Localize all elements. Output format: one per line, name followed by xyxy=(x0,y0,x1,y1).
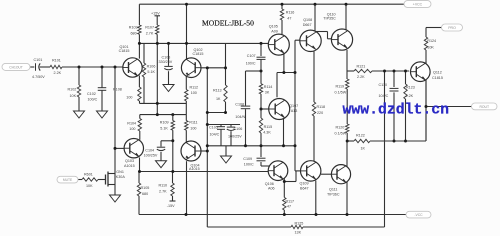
svg-text:C106: C106 xyxy=(234,127,243,131)
svg-text:100: 100 xyxy=(191,91,197,95)
svg-text:+15V: +15V xyxy=(151,12,160,16)
svg-text:ROUT: ROUT xyxy=(479,105,489,109)
svg-text:104/C: 104/C xyxy=(379,94,389,98)
svg-text:104/N: 104/N xyxy=(235,115,245,119)
svg-text:A09: A09 xyxy=(271,29,278,33)
svg-text:Q112: Q112 xyxy=(433,70,442,74)
svg-text:100: 100 xyxy=(190,127,196,131)
svg-text:MODEL:JBL-50: MODEL:JBL-50 xyxy=(202,19,254,28)
svg-text:C104: C104 xyxy=(145,148,154,152)
svg-text:C103: C103 xyxy=(162,55,171,59)
svg-text:C107: C107 xyxy=(247,54,256,58)
svg-text:R114: R114 xyxy=(264,85,273,89)
svg-text:R113: R113 xyxy=(213,89,222,93)
svg-text:PRO: PRO xyxy=(448,26,456,30)
svg-text:Q109: Q109 xyxy=(300,182,309,186)
svg-text:C1815: C1815 xyxy=(119,49,130,53)
svg-text:5.1K: 5.1K xyxy=(147,70,155,74)
svg-text:www.dzdlt.cn: www.dzdlt.cn xyxy=(343,103,450,119)
svg-text:100/25V: 100/25V xyxy=(144,154,158,158)
svg-text:2.7K: 2.7K xyxy=(159,190,167,194)
svg-text:R108: R108 xyxy=(113,88,122,92)
svg-text:-VCC: -VCC xyxy=(414,213,423,217)
svg-text:104/C: 104/C xyxy=(210,133,220,137)
svg-text:0.1/5W: 0.1/5W xyxy=(335,132,347,136)
svg-text:A06: A06 xyxy=(268,187,275,191)
svg-text:R112: R112 xyxy=(190,85,199,89)
svg-text:680: 680 xyxy=(131,31,137,35)
svg-text:2.2K: 2.2K xyxy=(357,75,365,79)
svg-text:D667: D667 xyxy=(303,23,312,27)
svg-text:C101: C101 xyxy=(34,58,43,62)
svg-text:100/C: 100/C xyxy=(246,62,256,66)
svg-text:R123: R123 xyxy=(406,86,415,90)
svg-text:R125: R125 xyxy=(295,222,304,226)
svg-text:100/C: 100/C xyxy=(88,97,98,101)
svg-text:47: 47 xyxy=(287,16,291,20)
svg-text:100: 100 xyxy=(126,95,132,99)
svg-text:R115: R115 xyxy=(264,125,273,129)
svg-text:R105: R105 xyxy=(141,186,150,190)
svg-text:R119: R119 xyxy=(336,84,345,88)
svg-text:Q108: Q108 xyxy=(303,18,312,22)
svg-text:GN1: GN1 xyxy=(116,170,124,174)
svg-text:220: 220 xyxy=(317,111,323,115)
svg-text:Q103: Q103 xyxy=(125,159,134,163)
svg-text:TIP35C: TIP35C xyxy=(323,17,336,21)
svg-text:C1815: C1815 xyxy=(432,76,443,80)
svg-text:Q107: Q107 xyxy=(289,104,298,108)
svg-text:R110: R110 xyxy=(159,184,168,188)
svg-text:4.7/50V: 4.7/50V xyxy=(32,75,45,79)
svg-text:+VCC: +VCC xyxy=(413,2,423,6)
svg-text:13K: 13K xyxy=(295,231,302,235)
svg-text:R103: R103 xyxy=(129,25,138,29)
svg-text:R120: R120 xyxy=(336,126,345,130)
svg-text:R106: R106 xyxy=(147,65,156,69)
svg-text:C102: C102 xyxy=(87,92,96,96)
svg-text:R116: R116 xyxy=(286,10,295,14)
svg-text:A1015: A1015 xyxy=(124,164,135,168)
svg-text:R104: R104 xyxy=(127,121,136,125)
svg-text:R601: R601 xyxy=(84,173,93,177)
svg-text:A13: A13 xyxy=(291,109,298,113)
svg-text:0.1/5W: 0.1/5W xyxy=(335,90,347,94)
svg-text:R111: R111 xyxy=(189,121,197,125)
svg-text:2.7K: 2.7K xyxy=(146,31,154,35)
svg-text:R109: R109 xyxy=(160,121,169,125)
svg-text:1K: 1K xyxy=(216,97,221,101)
svg-text:10K: 10K xyxy=(427,46,434,50)
svg-text:2.2K: 2.2K xyxy=(406,94,414,98)
svg-text:C1815: C1815 xyxy=(193,52,204,56)
svg-text:R107: R107 xyxy=(145,25,154,29)
svg-text:10K: 10K xyxy=(86,184,93,188)
svg-text:-15V: -15V xyxy=(167,204,175,208)
svg-text:3K: 3K xyxy=(265,91,270,95)
svg-text:R102: R102 xyxy=(68,88,77,92)
svg-text:1K: 1K xyxy=(361,146,366,150)
svg-text:TIP36C: TIP36C xyxy=(327,193,340,197)
svg-text:A1015: A1015 xyxy=(189,167,200,171)
svg-text:680: 680 xyxy=(142,192,148,196)
svg-text:R121: R121 xyxy=(357,64,366,68)
svg-text:C108: C108 xyxy=(235,103,244,107)
svg-text:Q105: Q105 xyxy=(269,25,278,29)
svg-text:47: 47 xyxy=(287,204,291,208)
svg-text:R101: R101 xyxy=(52,59,61,63)
svg-text:2.2K: 2.2K xyxy=(54,71,62,75)
svg-text:B647: B647 xyxy=(300,187,309,191)
svg-text:C109: C109 xyxy=(243,157,252,161)
svg-text:100/C: 100/C xyxy=(244,162,254,166)
svg-text:R122: R122 xyxy=(356,133,365,137)
svg-text:C110: C110 xyxy=(379,83,388,87)
svg-text:MUTE: MUTE xyxy=(63,178,73,182)
svg-text:CH1OUT: CH1OUT xyxy=(9,65,23,69)
svg-text:10K: 10K xyxy=(70,94,77,98)
svg-text:R118: R118 xyxy=(317,105,326,109)
svg-text:4.3K: 4.3K xyxy=(263,130,271,134)
svg-text:100/25V: 100/25V xyxy=(228,135,242,139)
svg-text:330/25V: 330/25V xyxy=(159,60,173,64)
svg-text:Q111: Q111 xyxy=(329,188,337,192)
svg-text:C105: C105 xyxy=(209,126,218,130)
svg-text:5.1K: 5.1K xyxy=(160,127,168,131)
svg-text:K30A: K30A xyxy=(116,175,126,179)
svg-text:R117: R117 xyxy=(286,199,295,203)
svg-text:100: 100 xyxy=(129,127,135,131)
svg-text:R124: R124 xyxy=(427,39,436,43)
svg-text:Q106: Q106 xyxy=(265,182,274,186)
